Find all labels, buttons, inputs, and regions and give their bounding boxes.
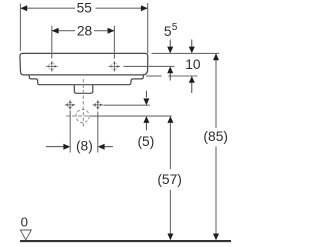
dim 28 arrow right [108, 28, 115, 34]
washbasin rim outline [20, 53, 148, 75]
tap hole left [46, 61, 58, 71]
drain centerline (dashed vertical) [82, 79, 84, 128]
dim (85) vertical line [213, 53, 219, 60]
svg-text:0: 0 [21, 214, 28, 229]
dim 28 extension line right [113, 26, 115, 59]
dim 55 arrow right [141, 5, 148, 11]
dim (8) right arrow [98, 144, 105, 150]
dim 5.5 arrows [169, 40, 171, 48]
svg-text:(57): (57) [157, 172, 182, 187]
dim 55 extension line right [147, 3, 149, 53]
fixing hole left [65, 100, 75, 109]
dim 28 arrow left [52, 28, 59, 34]
dim 10 arrows [191, 40, 193, 48]
datum triangle [20, 230, 31, 240]
dim (8) extension line right [97, 112, 99, 153]
drain notch [74, 85, 93, 93]
lip line extension right [146, 75, 162, 77]
dim 55 arrow left [20, 5, 27, 11]
dim (5) arrows [145, 91, 147, 98]
svg-text:(85): (85) [203, 129, 228, 144]
washbasin lip step [29, 75, 143, 85]
dim (8) left arrow [46, 146, 65, 148]
dim 55 extension line left [19, 4, 21, 52]
svg-text:5: 5 [172, 22, 178, 33]
svg-text:(5): (5) [137, 134, 154, 149]
dim 28 line [52, 30, 75, 32]
svg-text:28: 28 [77, 24, 93, 39]
svg-text:10: 10 [185, 57, 201, 72]
top edge extension line right [152, 52, 220, 54]
line B: drain centerline extension [91, 115, 172, 117]
dim (8) extension line left [69, 111, 71, 153]
svg-text:55: 55 [77, 0, 93, 15]
dim 55 line [20, 7, 75, 9]
dim 28 extension line left [51, 26, 53, 59]
svg-text:(8): (8) [76, 138, 93, 153]
tap hole right [109, 61, 121, 71]
line A: fixing hole centerline extension [103, 104, 149, 106]
drain circle horizontal centerline [66, 115, 91, 117]
tap centerline extension right [124, 65, 175, 67]
drain circle (dashed) [76, 109, 89, 122]
floor baseline [20, 240, 231, 242]
fixing hole right [93, 100, 103, 109]
svg-text:5: 5 [164, 24, 172, 39]
dim (57) vertical line [167, 116, 173, 123]
